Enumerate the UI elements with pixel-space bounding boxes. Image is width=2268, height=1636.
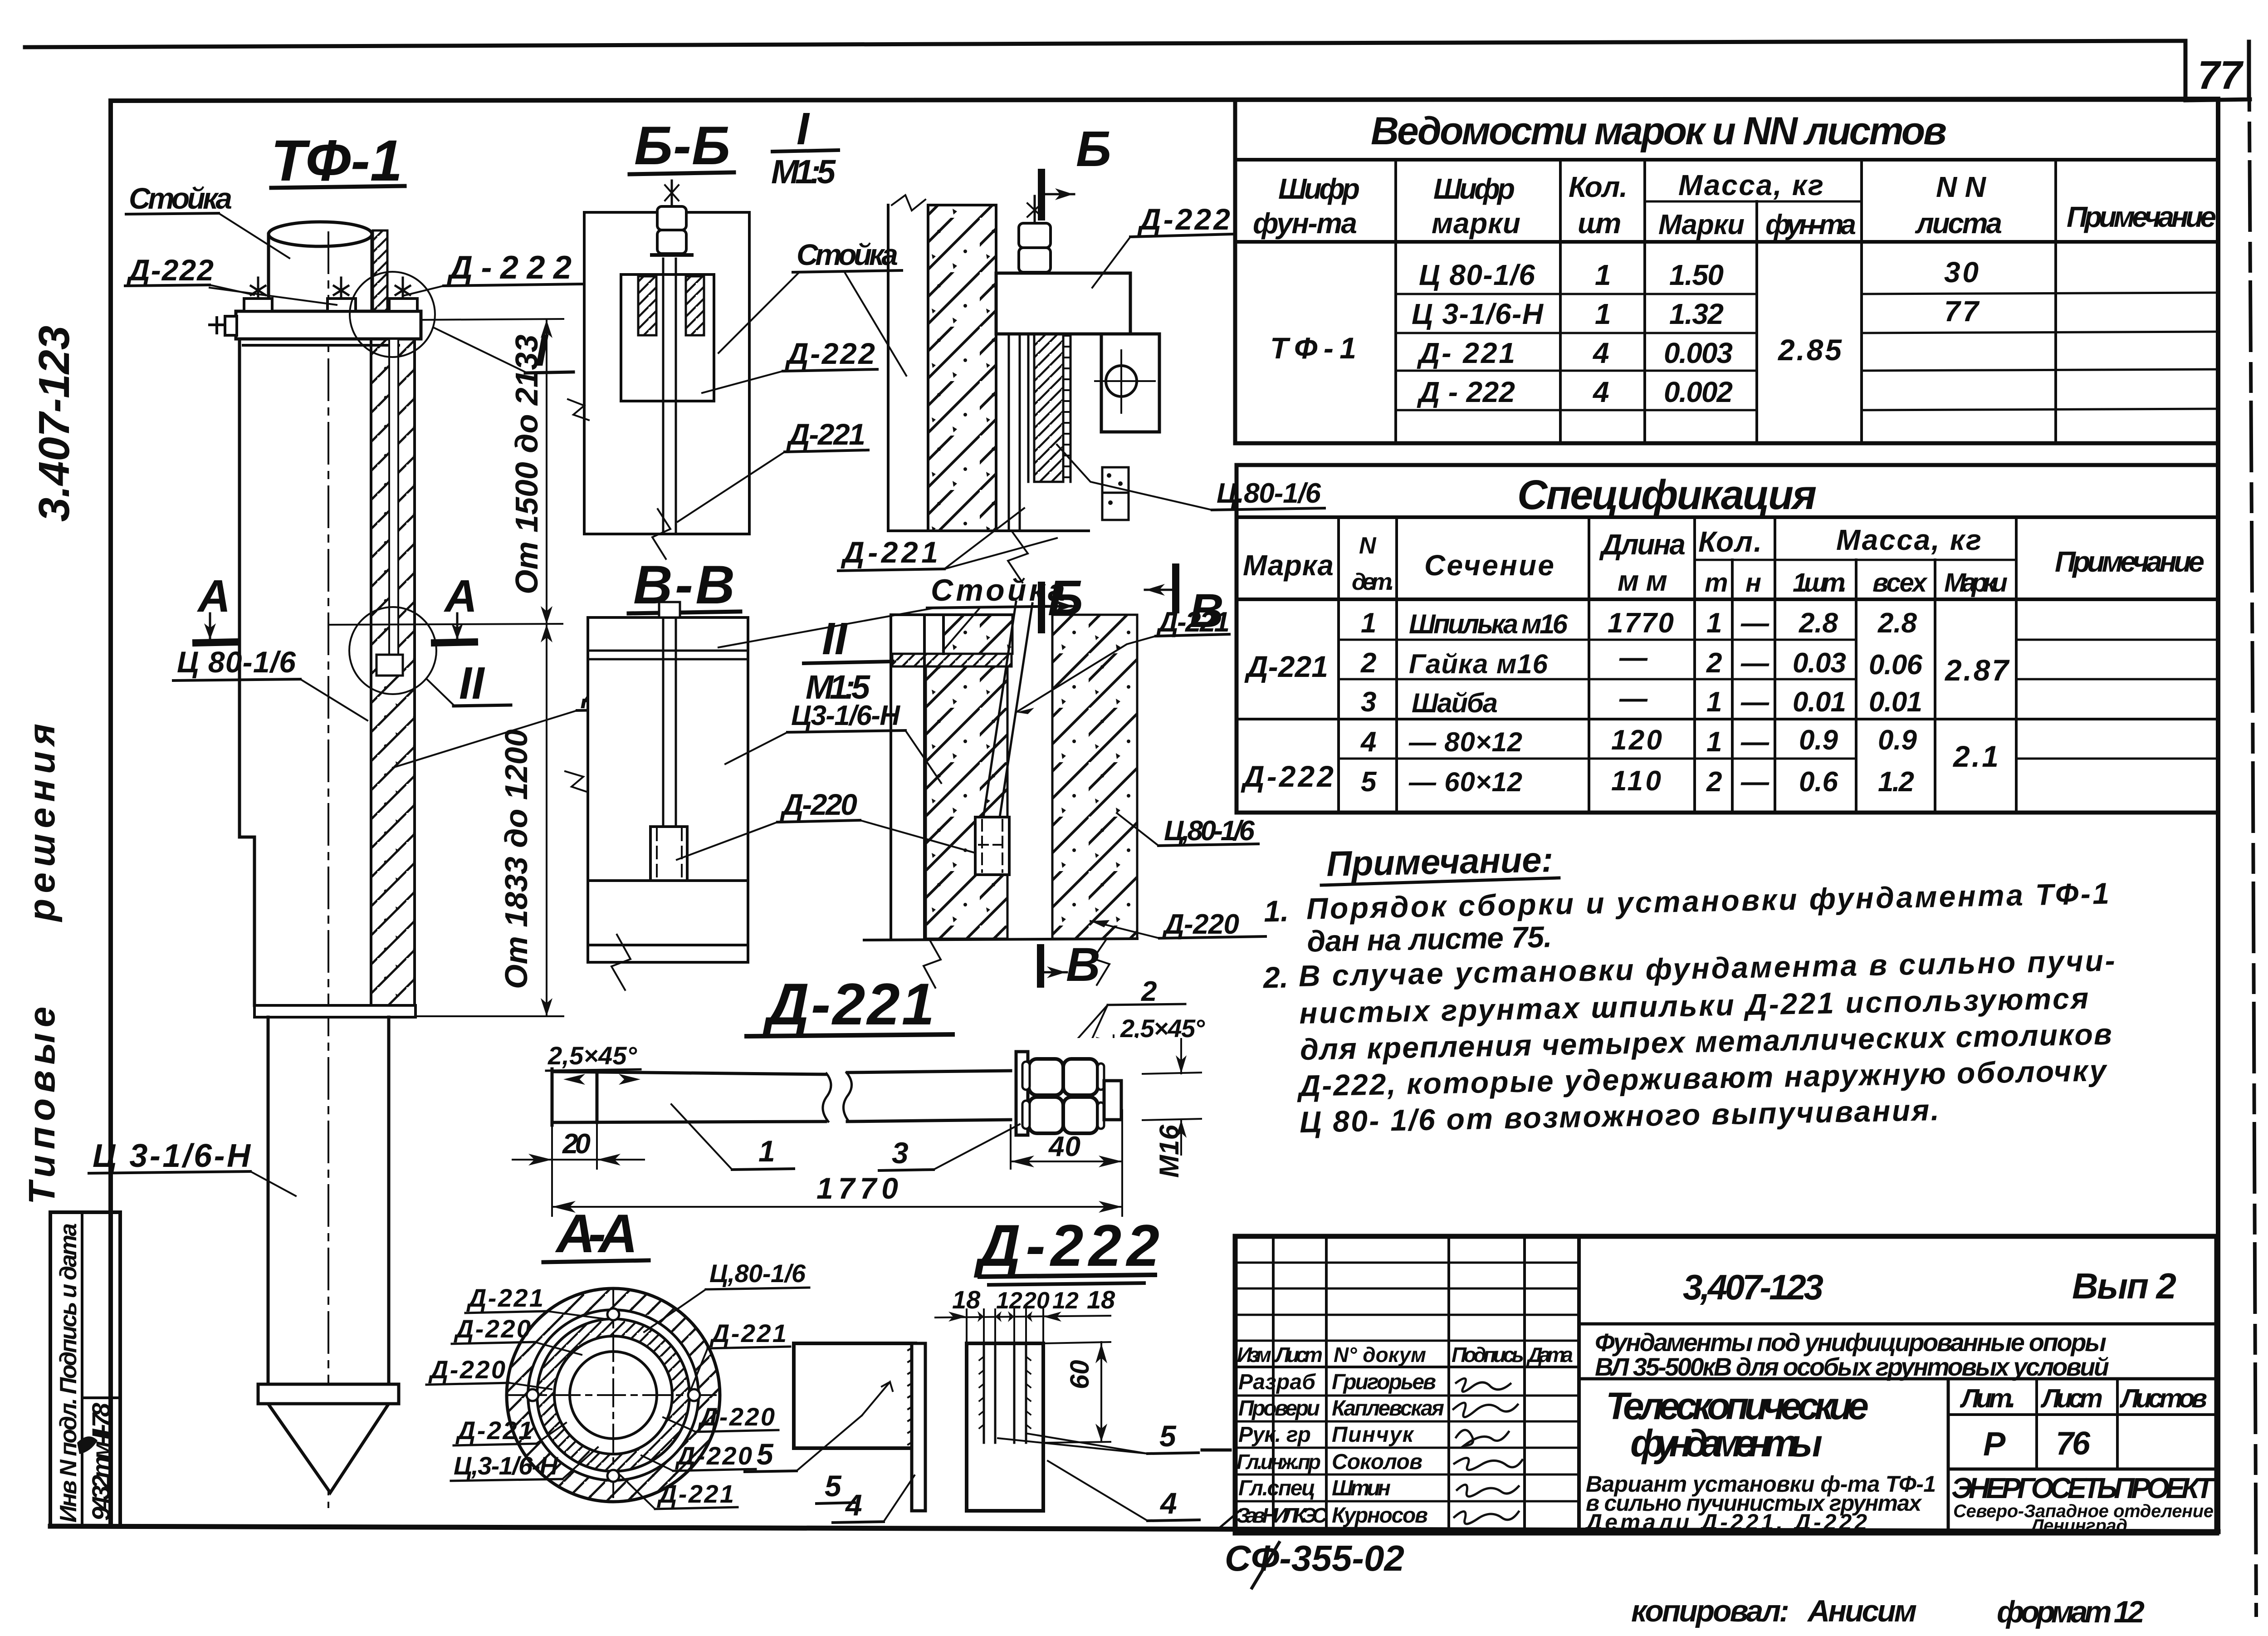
svg-text:12: 12	[996, 1288, 1022, 1314]
white backing for nut area	[1012, 1038, 1203, 1138]
svg-text:5: 5	[757, 1437, 774, 1471]
svg-text:0.01: 0.01	[1869, 686, 1922, 718]
svg-text:Шпилька м16: Шпилька м16	[1409, 609, 1568, 639]
label Ц3-1/6-Н	[89, 1138, 296, 1196]
stoyka cylinder	[269, 222, 372, 311]
svg-text:4: 4	[1592, 337, 1609, 369]
svg-text:А: А	[443, 571, 477, 622]
svg-text:Ведомости марок и NN листов: Ведомости марок и NN листов	[1371, 109, 1947, 153]
bracket Д-222 right on cap	[389, 299, 417, 311]
svg-text:Б: Б	[1076, 121, 1111, 177]
svg-text:2: 2	[1141, 976, 1157, 1007]
svg-text:18: 18	[1087, 1285, 1115, 1314]
dim М16	[1143, 1039, 1201, 1178]
signature scribbles	[1453, 1378, 1522, 1524]
svg-text:— 80×12: — 80×12	[1408, 727, 1522, 757]
svg-text:Шифр: Шифр	[1278, 172, 1360, 205]
svg-text:0.6: 0.6	[1799, 766, 1838, 798]
svg-text:ТФ-1: ТФ-1	[271, 128, 402, 193]
svg-text:Марки: Марки	[1944, 568, 2008, 598]
svg-text:2.85: 2.85	[1777, 333, 1842, 367]
bolt stack on top	[652, 181, 692, 255]
dims 18 12 20 12 18	[935, 1285, 1115, 1359]
section mark В bottom	[1041, 938, 1100, 991]
svg-text:3.407-123: 3.407-123	[30, 326, 78, 522]
svg-text:1: 1	[1595, 298, 1611, 330]
left break mark	[565, 771, 588, 792]
svg-text:Д-220: Д-220	[454, 1314, 531, 1343]
svg-text:Примечание:: Примечание:	[1326, 839, 1554, 884]
svg-text:Д-222: Д-222	[973, 1212, 1159, 1278]
lower tube Ц3-1/6-Н	[268, 1017, 389, 1384]
ferrule Д-220 in band	[376, 655, 403, 676]
svg-text:Ц,3-1/6-Н: Ц,3-1/6-Н	[454, 1451, 559, 1480]
svg-text:Вып 2: Вып 2	[2072, 1266, 2176, 1306]
svg-text:Григорьев: Григорьев	[1332, 1370, 1436, 1394]
svg-text:—: —	[1740, 726, 1769, 758]
label Д-220	[677, 788, 987, 860]
svg-text:Лит.: Лит.	[1960, 1384, 2016, 1413]
svg-text:Ц 80-1/6: Ц 80-1/6	[177, 645, 296, 679]
part 4 front view	[794, 1343, 925, 1511]
header bottom line	[1235, 240, 2218, 244]
stoyka shell strip top	[373, 230, 387, 311]
svg-text:2,5×45°: 2,5×45°	[547, 1041, 637, 1070]
svg-text:ВЛ 35-500кВ для особых грунтов: ВЛ 35-500кВ для особых грунтовых условий	[1595, 1352, 2109, 1381]
svg-text:77: 77	[2198, 53, 2244, 98]
svg-text:5: 5	[1159, 1419, 1177, 1453]
bottom break	[652, 509, 670, 559]
svg-text:Кол.: Кол.	[1698, 525, 1762, 558]
title underline	[543, 1260, 649, 1262]
weld serration	[1063, 336, 1070, 477]
title block frame	[1235, 1236, 2217, 1533]
label Ц80-1/6 below right	[1057, 445, 1325, 510]
cone flange	[258, 1384, 399, 1404]
svg-text:60: 60	[1065, 1360, 1095, 1389]
inventory stamp box	[50, 1212, 120, 1526]
svg-text:Примечание: Примечание	[2055, 545, 2204, 578]
chamfer label right with leader 2	[1053, 976, 1205, 1134]
inner bore	[570, 1352, 657, 1439]
svg-text:Д-220: Д-220	[698, 1402, 775, 1431]
label Д-220 left1	[452, 1314, 582, 1355]
svg-text:Телескопические: Телескопические	[1606, 1385, 1869, 1427]
svg-text:1: 1	[1706, 726, 1722, 758]
svg-text:120: 120	[1611, 725, 1662, 756]
title underline	[629, 612, 740, 613]
section mark В top	[1145, 567, 1224, 637]
label Д-222 top right	[1092, 202, 1232, 288]
svg-text:2: 2	[1706, 766, 1722, 798]
concrete band left	[926, 666, 1007, 939]
top border line	[25, 41, 2185, 47]
svg-text:Зав НИЛКЭС: Зав НИЛКЭС	[1237, 1504, 1328, 1527]
title row line	[1235, 158, 2218, 162]
svg-text:Стойка: Стойка	[931, 573, 1065, 607]
svg-text:Ц,80-1/6: Ц,80-1/6	[709, 1259, 806, 1288]
label Д-222 right	[403, 250, 582, 296]
cone tip	[268, 1404, 389, 1493]
label Ц80-1/6 topright	[644, 1259, 809, 1332]
detail circle II	[349, 607, 436, 694]
section mark Б top	[1041, 121, 1111, 217]
right section lines	[1579, 1323, 2217, 1326]
label Стойка (В-В)	[719, 573, 1070, 651]
svg-text:Гайка м16: Гайка м16	[1409, 649, 1548, 679]
washer	[1016, 1052, 1028, 1135]
svg-text:Д-220: Д-220	[780, 788, 857, 821]
svg-text:0.9: 0.9	[1799, 725, 1838, 756]
break S-marks	[823, 1073, 852, 1122]
svg-text:Д-221: Д-221	[709, 1319, 787, 1347]
label Д-221 topleft	[465, 1283, 608, 1319]
svg-text:0.9: 0.9	[1878, 725, 1917, 756]
label Д-222 left	[125, 253, 337, 305]
label Д-221	[678, 417, 868, 522]
stoyka column	[888, 195, 928, 531]
bolt with spring washer right	[396, 278, 410, 299]
label Стойка	[126, 181, 289, 258]
svg-text:Ц 3-1/6-Н: Ц 3-1/6-Н	[1412, 298, 1544, 330]
label II	[427, 658, 511, 709]
bolt on plate	[1019, 196, 1051, 273]
stamp divider	[81, 1212, 83, 1526]
column lines	[1337, 517, 1340, 813]
svg-text:II: II	[822, 613, 848, 664]
svg-text:Кол.: Кол.	[1569, 171, 1628, 203]
svg-text:— 60×12: — 60×12	[1408, 767, 1522, 797]
svg-text:2.8: 2.8	[1799, 607, 1838, 639]
label Д-221 bottom	[621, 1475, 738, 1509]
hatched sleeve left	[638, 276, 656, 335]
dim arrows	[541, 320, 552, 1016]
svg-text:5: 5	[1361, 766, 1377, 798]
label Д-221 right	[1016, 607, 1230, 714]
svg-text:Лист: Лист	[2040, 1384, 2103, 1413]
ink blot	[77, 1436, 98, 1454]
svg-text:Спецификация: Спецификация	[1517, 472, 1817, 518]
svg-text:Примечание: Примечание	[2067, 201, 2216, 233]
svg-text:Масса, кг: Масса, кг	[1678, 169, 1823, 201]
svg-text:н: н	[1745, 568, 1761, 598]
label Ц80-1/6 right	[1117, 813, 1258, 847]
svg-text:Стойка: Стойка	[797, 238, 898, 271]
svg-text:I: I	[797, 103, 810, 154]
svg-text:—: —	[1619, 642, 1648, 673]
sheet right edge line	[2249, 42, 2256, 1615]
bracket Д-222 left on cap	[244, 299, 272, 311]
svg-text:шт.: шт.	[1578, 207, 1621, 240]
svg-text:—: —	[1740, 766, 1769, 798]
svg-text:0.003: 0.003	[1664, 337, 1733, 369]
double underline	[980, 1275, 1155, 1277]
svg-text:Марки: Марки	[1658, 209, 1745, 240]
svg-text:Гл.инж.пр: Гл.инж.пр	[1237, 1450, 1321, 1474]
svg-text:Детали Д-221, Д-222: Детали Д-221, Д-222	[1584, 1509, 1867, 1535]
svg-text:1: 1	[1706, 686, 1722, 718]
label Д-220 left2	[426, 1355, 552, 1389]
rod end right	[1104, 1081, 1121, 1120]
svg-text:3,407-123: 3,407-123	[1683, 1267, 1823, 1307]
svg-text:2.: 2.	[1262, 960, 1288, 994]
svg-text:4: 4	[1592, 376, 1609, 408]
svg-text:СФ-355-02: СФ-355-02	[1225, 1538, 1404, 1578]
svg-text:110: 110	[1611, 765, 1661, 797]
svg-text:марки: марки	[1432, 207, 1520, 240]
svg-text:Д-221: Д-221	[1244, 650, 1328, 683]
svg-text:—: —	[1619, 683, 1648, 714]
svg-text:0.01: 0.01	[1793, 686, 1846, 718]
svg-text:4: 4	[1159, 1486, 1177, 1520]
plate Д-222 top view	[996, 273, 1130, 334]
bottom edge	[888, 529, 1089, 532]
crosshair	[507, 1288, 719, 1502]
svg-text:Д-221: Д-221	[841, 535, 938, 569]
svg-text:0.06: 0.06	[1869, 649, 1923, 681]
svg-text:Лист: Лист	[1274, 1343, 1323, 1367]
кол масса subsplit	[1695, 559, 1775, 561]
svg-text:76: 76	[2056, 1425, 2091, 1462]
stud circles	[527, 1308, 700, 1482]
hatched shell strip	[1034, 334, 1063, 482]
column lines	[1394, 160, 1397, 443]
dim 60	[1045, 1342, 1110, 1443]
svg-text:—: —	[1740, 607, 1769, 639]
svg-text:1.32: 1.32	[1669, 298, 1724, 330]
svg-text:1: 1	[1706, 607, 1722, 639]
svg-text:Штин: Штин	[1332, 1476, 1391, 1500]
svg-text:Масса, кг: Масса, кг	[1836, 524, 1981, 556]
label Ц3-1/6-Н bottom left	[451, 1447, 598, 1481]
bottom flange of outer tube	[254, 1005, 415, 1017]
title underline	[747, 1034, 953, 1036]
ferrule Д-220	[650, 827, 687, 881]
svg-text:фун-та: фун-та	[1253, 207, 1357, 240]
svg-text:1: 1	[758, 1134, 775, 1168]
svg-text:ТФ-1: ТФ-1	[1270, 331, 1356, 365]
svg-text:Курносов: Курносов	[1332, 1504, 1428, 1528]
svg-text:Р: Р	[1983, 1425, 2006, 1463]
svg-text:Рук. гр: Рук. гр	[1238, 1423, 1311, 1447]
svg-text:Д-221: Д-221	[657, 1479, 734, 1508]
svg-text:4: 4	[1360, 726, 1376, 758]
shell wall lines below plate	[1009, 334, 1028, 531]
svg-text:формат 12: формат 12	[1997, 1595, 2145, 1629]
svg-text:Ц3-1/6-Н: Ц3-1/6-Н	[791, 700, 900, 731]
title row line	[1237, 515, 2218, 519]
svg-text:Инв N подл. Подпись и дата: Инв N подл. Подпись и дата	[55, 1223, 82, 1523]
svg-text:1: 1	[1361, 607, 1376, 639]
hatched sleeve right	[686, 276, 704, 335]
svg-text:Д-222: Д-222	[1137, 202, 1230, 236]
svg-text:1.50: 1.50	[1669, 259, 1724, 291]
svg-text:4: 4	[845, 1488, 862, 1522]
svg-text:Д- 221: Д- 221	[1417, 337, 1515, 369]
svg-text:0.03: 0.03	[1793, 647, 1846, 679]
svg-text:Ленинград: Ленинград	[2030, 1516, 2127, 1536]
svg-text:ЭНЕРГОСЕТЬПРОЕКТ: ЭНЕРГОСЕТЬПРОЕКТ	[1951, 1472, 2216, 1504]
svg-text:II: II	[459, 658, 485, 709]
svg-text:1 шт.: 1 шт.	[1793, 568, 1847, 598]
svg-text:А: А	[196, 571, 230, 622]
svg-text:Д-220: Д-220	[675, 1441, 752, 1470]
svg-text:Д-221: Д-221	[455, 1416, 533, 1445]
bolt with spring washer mid	[334, 278, 348, 299]
table Спецификация outer	[1237, 465, 2218, 813]
nut above top	[659, 602, 680, 617]
svg-text:Д-222: Д-222	[1241, 759, 1334, 793]
svg-text:От 1500 до 2133: От 1500 до 2133	[509, 334, 544, 594]
svg-text:Соколов: Соколов	[1332, 1450, 1422, 1474]
svg-text:Провери: Провери	[1238, 1396, 1320, 1420]
Б-Б outer box	[584, 212, 749, 534]
масса subsplit line	[1645, 201, 1862, 203]
svg-text:1.2: 1.2	[1878, 766, 1914, 798]
section mark Б bottom	[1041, 570, 1083, 630]
svg-text:Каплевская: Каплевская	[1332, 1396, 1444, 1420]
svg-text:m: m	[1705, 568, 1728, 598]
nuts	[1022, 1059, 1104, 1133]
label 5 right	[998, 1419, 1198, 1454]
svg-text:Дата: Дата	[1526, 1343, 1573, 1367]
svg-text:Ц.80-1/6: Ц.80-1/6	[1217, 478, 1321, 509]
part side view	[967, 1343, 1043, 1511]
svg-text:Шифр: Шифр	[1433, 172, 1515, 205]
svg-text:—: —	[1740, 647, 1769, 679]
top concrete block	[943, 615, 1012, 654]
svg-text:Д-221: Д-221	[762, 971, 934, 1037]
svg-text:N: N	[1359, 533, 1377, 559]
svg-text:дет.: дет.	[1352, 569, 1394, 595]
label 5 left	[745, 1416, 862, 1472]
svg-text:Д-222: Д-222	[785, 337, 875, 370]
label Д-220 bottom	[641, 1441, 756, 1471]
ferrule Д-220 right	[975, 817, 1009, 875]
header bottom line	[1237, 598, 2218, 601]
svg-text:листа: листа	[1915, 207, 2002, 240]
svg-text:2.8: 2.8	[1877, 607, 1917, 639]
svg-text:2: 2	[1360, 647, 1376, 679]
label Стойка mid	[719, 238, 906, 376]
label Д-222	[702, 337, 877, 393]
label Д-221 left3	[454, 1416, 566, 1445]
ferrule blocks bottom	[1102, 467, 1129, 520]
svg-text:Длина: Длина	[1599, 528, 1686, 561]
row lines	[1339, 639, 1856, 641]
cap left tab	[210, 316, 237, 335]
bottom break	[924, 939, 941, 988]
concrete band	[928, 205, 996, 531]
inner cutout	[621, 274, 714, 401]
bottom band lines	[588, 881, 748, 945]
svg-text:От 1833 до 1200: От 1833 до 1200	[499, 729, 534, 989]
svg-text:3: 3	[1361, 686, 1376, 718]
svg-text:Д - 222: Д - 222	[1417, 376, 1515, 408]
stud through	[663, 259, 676, 532]
svg-text:Типовые решения: Типовые решения	[21, 724, 63, 1205]
svg-text:В-В: В-В	[633, 554, 735, 615]
svg-text:Подпись: Подпись	[1452, 1343, 1524, 1367]
main frame	[111, 99, 2218, 101]
svg-text:0.002: 0.002	[1664, 376, 1733, 408]
svg-text:12: 12	[1052, 1288, 1079, 1314]
svg-text:копировал: Анисим: копировал: Анисим	[1631, 1594, 1917, 1628]
label Д-220 right	[1090, 909, 1266, 940]
svg-text:Разраб: Разраб	[1238, 1370, 1316, 1394]
cap plate	[236, 311, 421, 339]
page number box	[2185, 41, 2250, 100]
svg-text:Изм: Изм	[1237, 1343, 1271, 1367]
stamp divider horizontal	[82, 1396, 120, 1399]
section mark А right	[435, 571, 477, 643]
bolt with spring washer left	[251, 278, 265, 299]
bracket Д-222 mid on cap	[327, 299, 356, 311]
row lines	[1396, 293, 1757, 295]
svg-text:М16: М16	[1154, 1125, 1184, 1178]
svg-text:2.87: 2.87	[1944, 653, 2010, 687]
section trace А-А	[330, 624, 562, 625]
stud channel in band	[389, 339, 398, 655]
left section verticals	[1272, 1236, 1275, 1533]
cap lower rim	[243, 344, 399, 347]
svg-text:Шайба: Шайба	[1412, 688, 1498, 718]
concrete band right	[1052, 615, 1137, 939]
part label 1	[671, 1104, 794, 1170]
label Ц3-1/6-Н	[725, 700, 941, 783]
svg-text:Д-221: Д-221	[466, 1283, 543, 1312]
svg-text:Пинчук: Пинчук	[1332, 1423, 1415, 1447]
title underline	[271, 186, 405, 188]
svg-text:Стойка: Стойка	[129, 181, 232, 215]
outer shell ring hatched	[507, 1288, 720, 1502]
svg-text:фун-та: фун-та	[1765, 209, 1856, 240]
inner shell ring hatched	[537, 1319, 689, 1471]
stoyka white column	[891, 615, 1012, 939]
stroke through	[1252, 1543, 1279, 1588]
svg-text:1.: 1.	[1263, 894, 1289, 928]
svg-text:2.1: 2.1	[1952, 740, 1999, 773]
label 4 right	[1048, 1461, 1199, 1521]
label Д-221 below	[838, 508, 1057, 571]
centerline of pile	[327, 232, 329, 1507]
svg-text:Д-221: Д-221	[786, 417, 865, 451]
svg-text:—: —	[1740, 686, 1769, 718]
svg-text:Листов: Листов	[2119, 1384, 2207, 1413]
dim 40	[1011, 1110, 1122, 1169]
chamfer label left	[546, 1041, 640, 1085]
svg-text:всех: всех	[1872, 568, 1928, 598]
label I	[434, 325, 573, 376]
svg-text:2: 2	[1706, 647, 1722, 679]
bottom break	[611, 935, 631, 990]
svg-text:фундаменты: фундаменты	[1630, 1422, 1823, 1465]
stud	[663, 617, 676, 827]
svg-text:Д-222: Д-222	[126, 253, 214, 287]
label Д-220 right2	[663, 1402, 778, 1432]
signature rows	[1235, 1395, 1579, 1397]
part label 3	[879, 1124, 1020, 1171]
label Д-221 right of pile	[393, 675, 696, 768]
dimension line right of pile	[415, 319, 563, 1016]
outer tube Ц80-1/6 left edge	[240, 339, 254, 1005]
bottom edge	[864, 939, 1137, 940]
dim 1770	[552, 1169, 1122, 1216]
svg-text:Марка: Марка	[1243, 549, 1334, 582]
plate lip lines	[588, 651, 748, 659]
slanted stud	[983, 602, 1032, 817]
svg-text:N° докум: N° докум	[1334, 1343, 1426, 1367]
